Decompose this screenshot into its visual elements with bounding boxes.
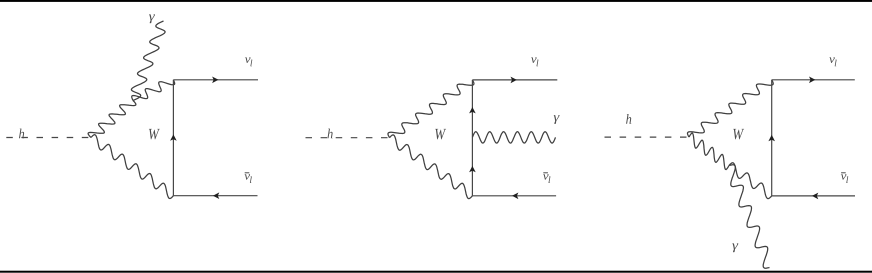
diagram 2: label nu_l <box>531 57 537 63</box>
diagram 3: W boson lower segment b (photon vertex to bottom vertex) <box>729 163 772 199</box>
diagram 2: label nubar_l <box>543 172 548 173</box>
diagram 1: label h <box>19 129 24 139</box>
top border rule <box>0 0 872 2</box>
diagram 1: W boson upper segment b (photon vertex to top vertex) <box>132 80 175 101</box>
diagram 3: fermion arrow up <box>768 135 775 141</box>
diagram 2: internal fermion line upper segment <box>471 80 473 137</box>
diagram 2: W boson lower <box>390 135 473 199</box>
diagram 1: W boson lower (h-vertex to bottom vertex) <box>91 135 173 199</box>
diagram 2: higgs line h <box>306 137 390 139</box>
diagram 2: neutrino line nu_l <box>472 79 557 81</box>
diagram 2: antineutrino line nubar_l <box>472 195 556 197</box>
diagram 1: neutrino line nu_l <box>173 79 258 81</box>
diagram 2: photon line horizontal <box>472 132 555 143</box>
diagram 3: antineutrino line nubar_l <box>772 195 855 197</box>
diagram 3: neutrino line nu_l <box>772 79 855 81</box>
diagram 3: higgs line h <box>605 136 690 138</box>
diagram 1: antineutrino line nubar_l <box>173 195 257 197</box>
diagram 1: higgs line h <box>6 137 91 139</box>
diagram 1: label nu_l <box>245 57 251 63</box>
diagram 3: label gamma <box>732 243 738 252</box>
diagram 2: label W <box>435 129 446 139</box>
diagram 2: internal fermion line lower segment <box>471 137 473 195</box>
diagram 2: arrow right on nu_l <box>511 77 517 84</box>
diagram 2: fermion arrow up (lower segment) <box>469 166 476 172</box>
diagram 3: W boson lower segment a (h-vertex to photon vertex) <box>689 133 729 169</box>
diagram 3: label nubar_l <box>841 172 846 173</box>
diagram 3: internal fermion line (vertical) <box>771 80 773 196</box>
diagram 2: arrow left on nubar_l <box>512 193 518 200</box>
diagram 3: label W <box>733 129 744 139</box>
diagram 3: W boson upper <box>688 80 774 137</box>
diagram 1: internal fermion line (vertical) <box>172 80 174 196</box>
diagram 1: fermion arrow up <box>170 134 177 140</box>
diagram 3: photon line to gamma <box>729 165 770 268</box>
diagram 2: W boson upper <box>388 80 474 138</box>
diagram 3: arrow right on nu_l <box>809 77 815 84</box>
diagram 3: label h <box>626 114 631 124</box>
diagram 2: label gamma <box>554 115 560 124</box>
diagram 2: label h <box>328 129 333 139</box>
diagram 1: photon line to gamma <box>131 21 165 101</box>
bottom border rule <box>0 271 872 273</box>
diagram 1: arrow right on nu_l <box>212 77 218 84</box>
diagram 1: label W <box>149 129 160 139</box>
diagram 1: W boson upper segment a (h-vertex to photon vertex) <box>88 101 136 138</box>
diagram 3: label nu_l <box>829 57 835 63</box>
diagram 1: label gamma <box>149 14 155 23</box>
diagram 1: label nubar_l <box>245 172 250 173</box>
diagram 3: arrow left on nubar_l <box>812 193 818 200</box>
diagram 2: fermion arrow up (upper segment) <box>469 107 476 113</box>
diagram 1: arrow left on nubar_l <box>213 192 219 199</box>
